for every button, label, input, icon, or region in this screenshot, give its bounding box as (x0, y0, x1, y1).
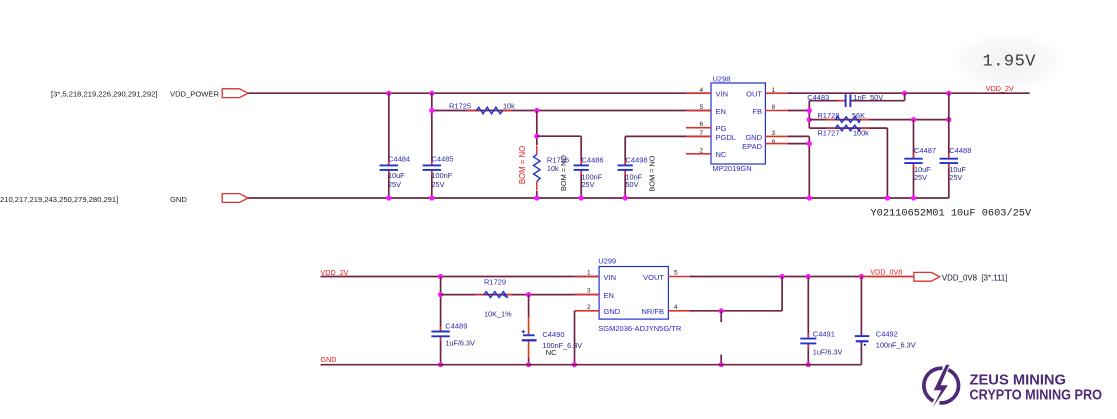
svg-text:210,217,219,243,250,279,280,29: 210,217,219,243,250,279,280,291] (0, 195, 118, 204)
capacitor C4489 1uF (440, 327, 442, 332)
capacitor C4484 (388, 160, 390, 165)
svg-text:VDD_2V: VDD_2V (986, 84, 1014, 93)
svg-text:10k: 10k (547, 164, 559, 173)
svg-text:25V: 25V (949, 173, 962, 182)
svg-text:C4485: C4485 (432, 155, 454, 164)
svg-text:PGDL: PGDL (716, 133, 736, 142)
svg-text:C4489: C4489 (445, 322, 467, 331)
svg-text:VIN: VIN (604, 273, 617, 282)
svg-text:1: 1 (587, 270, 591, 277)
svg-text:C4490: C4490 (542, 330, 564, 339)
U298 pin 3 GND red stub (765, 135, 790, 137)
capacitor C4488 10uF (948, 154, 950, 159)
svg-text:U298: U298 (713, 74, 731, 83)
wire EN net from C4485 column to U298 pin 5 (432, 110, 711, 112)
junction C4483 right / OUT (902, 91, 907, 96)
junction C4492 top / VDD_0V8 (859, 274, 864, 279)
op-amp U299 regulator SGM2036 box (599, 267, 668, 320)
wire EN row to U299 pin 3 (441, 294, 599, 296)
svg-text:VDD_0V8: VDD_0V8 (870, 267, 902, 276)
junction C4491 GND (806, 362, 811, 367)
off-page connector VDD_POWER (222, 89, 248, 98)
junction EN / R1726 column (534, 108, 539, 113)
junction dangling stub on NR/FB wire (719, 308, 724, 313)
junction dangling stub GND rail (719, 362, 724, 367)
U298 pin 1 OUT red stub (765, 92, 790, 94)
resistor R1728 56K (826, 119, 835, 121)
junction C4486 branch (534, 134, 539, 139)
wire C4487 vertical (913, 120, 915, 158)
capacitor C4485 (431, 160, 433, 165)
wire PGDL net C4498 to U298 pin 7 (625, 135, 711, 137)
svg-text:CRYPTO MINING PRO: CRYPTO MINING PRO (970, 387, 1103, 404)
resistor R1729 10K_1% (475, 294, 484, 296)
wire R1726 column vertical (536, 111, 538, 146)
junction C4485 GND (429, 195, 434, 200)
svg-text:C4498: C4498 (626, 155, 648, 164)
svg-text:9: 9 (772, 139, 776, 146)
capacitor C4483 branch wire left (809, 100, 845, 102)
svg-text:VOUT: VOUT (643, 273, 664, 282)
resistor R1726 10k BOM=NO (536, 146, 538, 155)
svg-text:3: 3 (587, 288, 591, 295)
U298 pin 2 NC stub (686, 153, 711, 155)
node junction VDD at C4484 (386, 91, 391, 96)
svg-text:VIN: VIN (716, 90, 729, 99)
junction C4491 top (806, 274, 811, 279)
wire U298 GND pin3 to vertical (788, 135, 809, 137)
svg-text:5: 5 (674, 270, 678, 277)
junction GND rail x=809.3 (807, 195, 812, 200)
svg-text:R1725: R1725 (449, 101, 471, 110)
svg-text:[3*,5,218,219,226,290,291,292]: [3*,5,218,219,226,290,291,292] (51, 90, 157, 99)
junction C4484 GND (386, 195, 391, 200)
wire VDD_2V bottom y=276.5 (321, 276, 600, 278)
U299 pin 5 VOUT red stub (668, 276, 692, 278)
wire dangling stub below NR/FB (720, 311, 722, 322)
wire GND rail top circuit y=198 (248, 197, 949, 199)
wire U298 EPAD pin9 to vertical (788, 143, 809, 145)
svg-text:U299: U299 (598, 257, 616, 266)
capacitor C4491 1uF (807, 334, 809, 339)
wire dangling stub above GND rail (720, 355, 722, 365)
capacitor C4485 vertical wire (431, 93, 433, 164)
junction R1727 GND (885, 195, 890, 200)
junction C4486 GND (579, 195, 584, 200)
svg-text:100nF_6.3V: 100nF_6.3V (876, 340, 916, 349)
svg-text:GND: GND (604, 307, 621, 316)
svg-text:4: 4 (674, 304, 678, 311)
svg-text:1.95V: 1.95V (983, 53, 1037, 72)
capacitor C4487 10uF (913, 154, 915, 159)
wire OUT net VDD_2V y=93.2 (788, 92, 1030, 94)
svg-text:SGM2036-ADJYN5G/TR: SGM2036-ADJYN5G/TR (598, 324, 682, 333)
logo lightning bolt (933, 365, 950, 408)
wire VOUT net y=276.5 (690, 276, 861, 278)
svg-text:EN: EN (716, 107, 726, 116)
svg-text:25V: 25V (388, 180, 401, 189)
capacitor C4498 10nF BOM=NO (624, 160, 626, 165)
wire feedback vertical x=782.1 (781, 277, 783, 311)
U299 pin 1 VIN red stub (575, 276, 600, 278)
svg-text:C4484: C4484 (388, 155, 410, 164)
svg-text:10k: 10k (503, 101, 515, 110)
capacitor C4492 100nF polarized (855, 335, 869, 337)
svg-text:R1728: R1728 (817, 111, 839, 120)
capacitor C4486 vertical wire (580, 136, 582, 164)
svg-text:BOM = NO: BOM = NO (559, 155, 568, 191)
svg-text:BOM = NO: BOM = NO (518, 146, 527, 184)
U298 pin 4 VIN red stub (686, 92, 711, 94)
wire C4491 vertical (807, 277, 809, 338)
svg-text:GND: GND (170, 195, 187, 204)
svg-text:10uF: 10uF (388, 171, 405, 180)
junction R1728 left (807, 117, 812, 122)
op-amp U298 regulator MP2019GN box (711, 83, 765, 164)
svg-text:Y02110652M01 10uF 0603/25V: Y02110652M01 10uF 0603/25V (871, 208, 1032, 220)
U298 pin 8 FB red stub (765, 110, 790, 112)
node junction VDD at C4485 (429, 91, 434, 96)
junction C4489 top (438, 274, 443, 279)
U298 pin 6 PG stub (686, 127, 711, 129)
wire OUT column x=948.8 vertical (948, 93, 950, 158)
wire GND rail bottom y=364.7 (321, 364, 862, 366)
svg-text:R1729: R1729 (484, 277, 506, 286)
capacitor C4484 vertical wire (388, 93, 390, 164)
svg-text:C4486: C4486 (582, 155, 604, 164)
svg-text:C4488: C4488 (949, 146, 971, 155)
svg-text:EPAD: EPAD (742, 142, 762, 151)
wire C4489 column vertical (440, 277, 442, 331)
junction OUT column mid (946, 117, 951, 122)
junction C4487 GND (911, 195, 916, 200)
svg-text:FB: FB (752, 107, 762, 116)
resistor R1725 10k (467, 110, 476, 112)
svg-text:50V: 50V (626, 180, 639, 189)
wire C4483 up to OUT (904, 93, 906, 101)
capacitor C4483 branch wire right (851, 100, 905, 102)
svg-text:GND: GND (321, 355, 337, 364)
junction FB wire (807, 108, 812, 113)
svg-text:100k: 100k (853, 128, 869, 137)
svg-text:GND: GND (745, 133, 762, 142)
svg-text:BOM = NO: BOM = NO (648, 155, 657, 191)
junction C4490 top (526, 292, 531, 297)
resistor R1728 56K wire (809, 119, 949, 121)
junction C4498 GND (623, 195, 628, 200)
svg-text:PG: PG (716, 124, 727, 133)
wire FB pin8 to divider (788, 110, 809, 112)
wire VDD_POWER rail y=93.2 (248, 92, 711, 94)
U298 pin 5 EN red stub (686, 110, 711, 112)
logo circle ring (940, 370, 959, 403)
junction OUT column x=948.8 (946, 91, 951, 96)
svg-text:25V: 25V (582, 180, 595, 189)
svg-text:25V: 25V (914, 173, 927, 182)
wire C4486 branch horizontal (537, 135, 581, 137)
svg-text:2: 2 (587, 304, 591, 311)
resistor R1727 100k (826, 127, 835, 129)
capacitor C4486 100nF BOM=NO (580, 160, 582, 165)
svg-text:25V: 25V (432, 180, 445, 189)
capacitor C4483 1nF 50V horizontal (838, 100, 845, 102)
junction R1726 GND (534, 195, 539, 200)
wire GND vertical x=809.3 (808, 136, 810, 198)
junction C4490 GND (526, 362, 531, 367)
off-page connector VDD_0V8 (914, 272, 940, 281)
svg-text:C4492: C4492 (876, 329, 898, 338)
off-page connector GND (222, 194, 248, 203)
wire C4492 vertical (860, 277, 862, 336)
svg-text:NC: NC (716, 150, 727, 159)
svg-text:OUT: OUT (746, 90, 762, 99)
capacitor C4498 vertical wire (624, 136, 626, 164)
U298 pin 7 PGDL red stub (686, 135, 711, 137)
U298 pin 9 EPAD red stub (765, 143, 790, 145)
wire R1727 down to GND (886, 128, 888, 198)
svg-text:100nF: 100nF (432, 171, 453, 180)
wire NR/FB to feedback column (690, 310, 782, 312)
svg-text:VDD_POWER: VDD_POWER (170, 90, 219, 99)
wire C4490 column vertical orange NC (528, 295, 530, 317)
svg-text:1uF/6.3V: 1uF/6.3V (445, 339, 475, 348)
junction C4487 top (911, 117, 916, 122)
junction EN row x=440.6 (438, 292, 443, 297)
svg-text:R1727: R1727 (817, 128, 839, 137)
svg-text:EN: EN (604, 291, 614, 300)
svg-text:1uF/6.3V: 1uF/6.3V (813, 347, 843, 356)
wire FB vertical x=809.3 (808, 101, 810, 128)
junction C4489 GND (438, 362, 443, 367)
U299 pin 4 NR/FB red stub (668, 310, 692, 312)
junction NR/FB feedback column (780, 274, 785, 279)
U299 pin 3 EN red stub (575, 294, 600, 296)
junction U299 GND rail (572, 362, 577, 367)
svg-text:NR/FB: NR/FB (642, 307, 665, 316)
capacitor C4490 100nF NC polarized (523, 334, 535, 336)
svg-text:C4483: C4483 (807, 93, 829, 102)
U299 pin 2 GND stub (575, 310, 600, 312)
junction pin9 join (807, 141, 812, 146)
svg-text:VDD_0V8 [3*,111]: VDD_0V8 [3*,111] (942, 273, 1008, 282)
svg-text:56K: 56K (852, 111, 865, 120)
svg-text:C4487: C4487 (914, 146, 936, 155)
svg-text:MP2019GN: MP2019GN (713, 164, 752, 173)
svg-text:10K_1%: 10K_1% (484, 309, 512, 318)
wire U299 GND down (574, 311, 576, 365)
wire VDD_0V8 red segment (861, 276, 914, 278)
resistor R1727 100k wire (809, 127, 887, 129)
svg-text:C4491: C4491 (813, 329, 835, 338)
junction R1725 left (429, 108, 434, 113)
svg-text:NC: NC (546, 348, 557, 357)
